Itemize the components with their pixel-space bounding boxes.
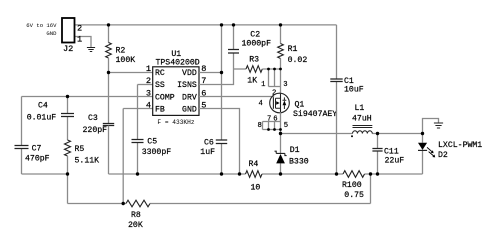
transistor Q1 Si9407AEY <box>270 93 290 113</box>
capacitor C7 <box>21 97 23 175</box>
capacitor C1 <box>336 25 338 174</box>
wire GND pin5 drop <box>199 109 240 175</box>
svg-text:3: 3 <box>283 81 287 89</box>
wire ISNS pin7 <box>199 69 234 85</box>
wire left bottom (FB net) <box>22 174 68 204</box>
svg-text:Q1: Q1 <box>295 101 305 110</box>
svg-text:COMP: COMP <box>155 94 175 103</box>
LED arrows <box>427 147 434 156</box>
transistor Q1 drain pins ladder <box>263 112 281 133</box>
svg-text:5.11K: 5.11K <box>75 157 100 166</box>
resistor R1 <box>280 25 282 44</box>
svg-text:Si9407AEY: Si9407AEY <box>293 109 337 119</box>
svg-text:D1: D1 <box>290 146 300 155</box>
svg-text:47uH: 47uH <box>352 115 372 124</box>
svg-text:RC: RC <box>155 69 165 78</box>
svg-text:5: 5 <box>201 101 206 111</box>
svg-text:1K: 1K <box>247 76 257 85</box>
wire SS pin2 <box>138 84 153 86</box>
svg-text:C11: C11 <box>384 147 399 156</box>
wire VDD pin8 <box>199 72 222 74</box>
svg-text:1: 1 <box>77 35 82 45</box>
capacitor C6 <box>221 73 223 175</box>
svg-text:F = 433KHz: F = 433KHz <box>157 119 194 126</box>
svg-text:6V to 16V: 6V to 16V <box>26 22 57 29</box>
resistor R4 <box>246 171 263 178</box>
svg-text:R2: R2 <box>116 46 126 55</box>
wire DRV gate <box>199 96 274 98</box>
svg-text:100K: 100K <box>116 56 136 65</box>
wire switch node <box>281 133 423 135</box>
svg-text:R1: R1 <box>288 45 298 54</box>
svg-text:0.75: 0.75 <box>344 191 364 200</box>
svg-text:4: 4 <box>259 100 263 108</box>
LED D2 LXCL-PWM1 <box>422 134 424 175</box>
svg-text:R3: R3 <box>249 55 259 64</box>
svg-text:B330: B330 <box>289 158 309 167</box>
svg-text:10uF: 10uF <box>344 85 364 94</box>
svg-text:R5: R5 <box>75 145 85 154</box>
wire R8 bottom <box>68 174 371 204</box>
diode D1 B330 <box>280 134 282 175</box>
wire FB drop to R8 <box>122 109 124 204</box>
svg-text:3: 3 <box>146 89 151 99</box>
capacitor C11 <box>377 134 379 175</box>
svg-text:LXCL-PWM1: LXCL-PWM1 <box>438 141 482 150</box>
svg-text:C6: C6 <box>204 139 214 148</box>
resistor R5 <box>65 140 71 156</box>
transistor Q1 source pins ladder <box>269 69 281 94</box>
wire RC pin1 <box>109 72 153 74</box>
ground <box>434 123 443 128</box>
capacitor C4 <box>67 97 69 141</box>
wire J2 pin1 to ground <box>75 37 92 48</box>
svg-text:4: 4 <box>146 101 151 111</box>
svg-text:1: 1 <box>146 64 151 74</box>
svg-text:TPS40200D: TPS40200D <box>155 59 199 68</box>
body diode of Q1 <box>283 97 287 109</box>
svg-text:DRV: DRV <box>182 94 197 103</box>
capacitor C2 <box>233 25 235 69</box>
svg-text:U1: U1 <box>171 50 181 59</box>
svg-text:GND: GND <box>182 106 197 115</box>
svg-text:C5: C5 <box>147 137 157 146</box>
svg-text:22uF: 22uF <box>385 156 405 165</box>
svg-text:L1: L1 <box>355 104 365 113</box>
svg-text:7: 7 <box>267 115 271 123</box>
svg-text:1000pF: 1000pF <box>242 39 272 48</box>
svg-text:2: 2 <box>146 76 151 86</box>
node dots <box>107 23 110 26</box>
svg-text:R8: R8 <box>131 211 141 220</box>
svg-text:J2: J2 <box>63 44 73 54</box>
svg-text:C4: C4 <box>38 102 48 111</box>
wire VDD riser <box>221 25 223 73</box>
ground <box>87 48 95 52</box>
svg-text:0.02: 0.02 <box>288 56 308 65</box>
svg-text:C2: C2 <box>250 30 260 39</box>
resistor R8 <box>126 200 150 207</box>
svg-text:1uF: 1uF <box>200 148 215 157</box>
svg-text:SS: SS <box>155 81 165 90</box>
svg-text:C7: C7 <box>32 144 42 153</box>
svg-text:220pF: 220pF <box>83 126 108 135</box>
op-amp U1 TPS40200D <box>153 67 199 116</box>
svg-text:20K: 20K <box>128 221 143 230</box>
wire COMP pin3 <box>22 96 153 98</box>
svg-text:R100: R100 <box>342 181 362 190</box>
capacitor C3 <box>103 124 114 126</box>
wire FB pin4 <box>123 108 153 110</box>
svg-text:GND: GND <box>46 30 57 37</box>
svg-text:D2: D2 <box>438 151 448 160</box>
svg-text:0.01uF: 0.01uF <box>27 113 57 122</box>
resistor R3 <box>234 68 247 70</box>
svg-text:8: 8 <box>257 122 261 130</box>
svg-text:2: 2 <box>77 24 82 34</box>
svg-text:470pF: 470pF <box>25 154 50 163</box>
resistor R2 <box>108 25 110 43</box>
svg-text:C3: C3 <box>88 114 98 123</box>
connector J2 <box>62 18 75 43</box>
svg-text:R4: R4 <box>249 160 259 169</box>
resistor R100 <box>343 171 365 178</box>
svg-text:ISNS: ISNS <box>177 81 197 90</box>
svg-text:3300pF: 3300pF <box>142 148 172 157</box>
svg-text:1: 1 <box>261 81 265 89</box>
svg-text:5: 5 <box>284 122 288 130</box>
capacitor C5 <box>137 85 139 175</box>
svg-text:10: 10 <box>251 184 261 193</box>
wire output to ground 2 <box>423 119 439 134</box>
wire top rail VIN <box>75 24 337 26</box>
svg-text:6: 6 <box>273 115 277 123</box>
svg-text:VDD: VDD <box>182 69 197 78</box>
inductor L1 47uH <box>353 131 373 134</box>
wire ground rail <box>109 173 423 175</box>
svg-text:FB: FB <box>155 106 165 115</box>
